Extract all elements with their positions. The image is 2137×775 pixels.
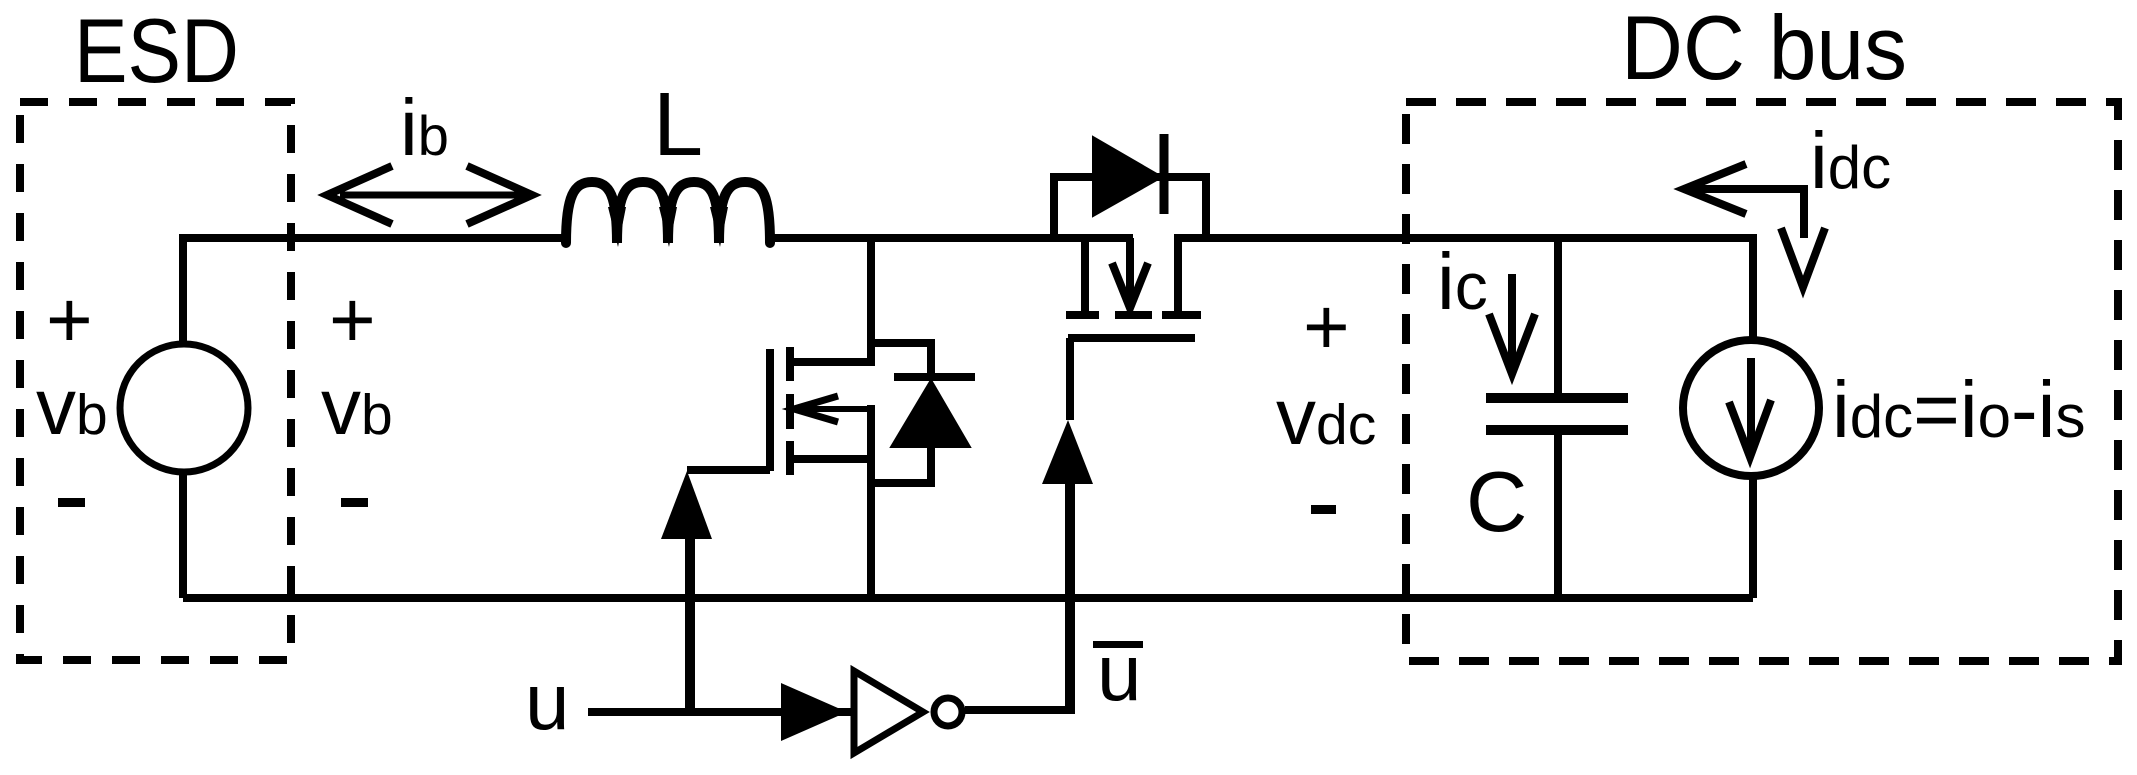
svg-text:+: + — [329, 275, 376, 364]
diode D1 anode link — [871, 445, 931, 483]
diode D2 loop — [1054, 177, 1206, 238]
svg-text:L: L — [653, 75, 703, 175]
capacitor C bottom lead — [1554, 434, 1562, 598]
transistor Q2 gate bar — [1068, 334, 1195, 342]
svg-text:+: + — [1303, 282, 1350, 371]
ib arrow left head — [327, 166, 392, 224]
ib bidirectional arrow shaft — [340, 192, 524, 199]
transistor Q1 source tap — [790, 455, 875, 463]
wire top right segment (Q2 source to DC bus) — [1174, 234, 1753, 242]
inverter U1 triangle — [854, 671, 923, 753]
wire Vb source top lead — [179, 234, 187, 345]
transistor Q2 source stub — [1174, 238, 1182, 311]
svg-text:DC bus: DC bus — [1621, 0, 1907, 99]
svg-text:+: + — [46, 275, 93, 364]
inverter input arrowhead — [781, 683, 847, 741]
current source idc bottom lead — [1749, 475, 1757, 598]
inverter U1 bubble — [934, 698, 962, 726]
voltage source Vb — [120, 344, 248, 472]
diode D2 triangle — [1093, 137, 1162, 216]
transistor Q1 source lead — [867, 405, 875, 598]
current source idc circle — [1683, 340, 1819, 476]
transistor Q2 body arrow — [1126, 238, 1134, 298]
diode D1 cathode bar — [894, 373, 975, 381]
u gate drive arrowhead — [661, 471, 712, 539]
svg-text:C: C — [1466, 455, 1527, 550]
diode D2 cathode bar — [1160, 134, 1169, 214]
capacitor C top plate — [1486, 393, 1628, 403]
u gate drive wire — [685, 539, 695, 712]
inverter input wire u — [588, 708, 856, 716]
ic arrow — [1508, 274, 1516, 365]
svg-text:ic: ic — [1437, 237, 1488, 326]
transistor Q1 gate bar — [766, 349, 774, 471]
ubar gate drive arrowhead — [1042, 420, 1093, 484]
label - (right vb) — [341, 498, 368, 507]
current source idc top lead — [1749, 234, 1757, 341]
transistor Q2 channel dashes — [1066, 311, 1201, 319]
label - (left vb) — [58, 498, 85, 507]
node: Q1 drain junction, drain lead — [867, 234, 875, 362]
transistor Q1 drain tap — [790, 358, 875, 366]
capacitor C bottom plate — [1486, 425, 1628, 435]
wire bottom — [183, 594, 1753, 602]
svg-text:u: u — [525, 657, 570, 746]
current source idc internal arrow — [1747, 358, 1755, 448]
ubar gate drive wire — [1065, 484, 1075, 714]
inductor L — [566, 182, 770, 243]
DC bus dashed box — [1406, 102, 2118, 661]
diode D1 triangle — [891, 380, 970, 447]
transistor Q1 gate wire — [687, 466, 770, 474]
wire top middle segment (inductor to Q2) — [770, 234, 1133, 242]
transistor Q2 drain stub — [1081, 238, 1089, 311]
wire Vb source bottom lead — [179, 472, 187, 598]
wire top left segment — [183, 234, 566, 242]
diode D1 cathode link — [867, 343, 931, 374]
ib arrow right head — [467, 166, 532, 224]
transistor Q2 gate wire — [1066, 338, 1074, 420]
idc bent arrow — [1684, 185, 1804, 238]
ESD dashed box — [20, 102, 291, 660]
label ubar overbar — [1093, 641, 1143, 648]
svg-text:u: u — [1097, 628, 1142, 717]
inverter output wire — [965, 706, 1074, 714]
transistor Q1 body arrow — [795, 406, 871, 412]
transistor Q1 channel dashes — [786, 347, 794, 475]
svg-text:ESD: ESD — [74, 1, 239, 102]
label - (vdc) — [1311, 505, 1336, 514]
capacitor C top lead — [1554, 234, 1562, 394]
